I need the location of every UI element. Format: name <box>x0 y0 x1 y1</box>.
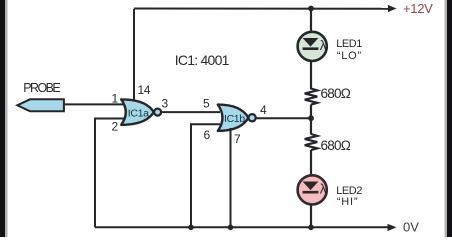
wire: pin 7 to 0V <box>230 128 232 227</box>
probe arrow <box>17 99 64 111</box>
right border bar <box>447 0 452 237</box>
NOR gate IC1b <box>218 105 256 131</box>
junction dot: pin4 / resistor node <box>308 115 314 121</box>
wire: pin 2 stub and left down wire <box>95 119 126 228</box>
+12V rail arrowhead <box>388 5 397 12</box>
wire: LED column (top rail through LED1 to R1) <box>310 9 312 90</box>
svg-text:IC1: 4001: IC1: 4001 <box>175 52 230 68</box>
svg-text:1: 1 <box>112 92 119 106</box>
svg-text:7: 7 <box>234 132 241 146</box>
svg-text:PROBE: PROBE <box>23 81 60 95</box>
left border bar <box>0 0 5 237</box>
wire: pin 6 stub and down wire <box>191 124 220 227</box>
wire: pin 14 supply drop to IC1a <box>133 9 135 101</box>
resistor R2 680ohm <box>305 134 318 150</box>
svg-text:6: 6 <box>204 128 211 142</box>
svg-text:λ: λ <box>320 181 327 196</box>
svg-text:14: 14 <box>138 83 151 97</box>
junction dot: 0V rail / pin7 wire <box>228 225 234 231</box>
wire: +12V top rail <box>134 8 389 10</box>
NOR gate IC1a <box>121 99 161 124</box>
wire: pin 4 output to LED column <box>256 117 312 119</box>
svg-text:680Ω: 680Ω <box>321 138 351 153</box>
LED1 <box>298 32 327 61</box>
wire: pin 3 to pin 5 <box>161 111 220 113</box>
wire: 0V bottom rail <box>95 226 389 228</box>
svg-text:0V: 0V <box>403 220 419 235</box>
svg-text:4: 4 <box>260 103 267 117</box>
LED2 <box>298 175 327 204</box>
svg-text:λ: λ <box>320 38 327 53</box>
wire: between R1 and R2 <box>310 105 312 135</box>
junction dot: 0V rail / pin6 wire <box>188 225 194 231</box>
wire: probe to pin 1 <box>60 103 126 105</box>
svg-text:“HI”: “HI” <box>337 196 359 208</box>
resistor R1 680ohm <box>305 89 318 105</box>
svg-text:680Ω: 680Ω <box>321 86 351 101</box>
svg-text:IC1a: IC1a <box>128 107 149 119</box>
svg-text:LED1: LED1 <box>336 38 362 50</box>
wire: R2 through LED2 to 0V rail <box>310 150 312 227</box>
0V rail arrowhead <box>388 224 397 231</box>
junction dot: top rail / LED1 <box>308 6 314 12</box>
svg-text:3: 3 <box>162 97 169 111</box>
svg-text:IC1b: IC1b <box>224 113 245 125</box>
svg-text:2: 2 <box>112 120 119 134</box>
svg-text:5: 5 <box>203 97 210 111</box>
svg-text:+12V: +12V <box>403 1 433 16</box>
svg-text:“LO”: “LO” <box>337 50 362 62</box>
junction dot: 0V rail / LED2 column <box>308 225 314 231</box>
